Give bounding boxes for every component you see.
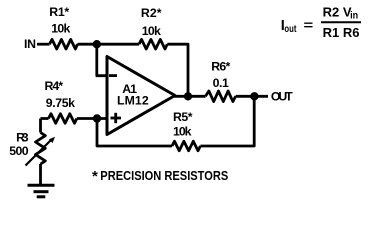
svg-text:10k: 10k bbox=[142, 24, 161, 38]
svg-text:OUT: OUT bbox=[271, 89, 293, 103]
svg-text:R1 R6: R1 R6 bbox=[323, 25, 360, 40]
svg-text:IN: IN bbox=[24, 37, 36, 51]
svg-text:10k: 10k bbox=[51, 21, 70, 35]
svg-text:R4*: R4* bbox=[45, 79, 64, 93]
svg-text:0.1: 0.1 bbox=[213, 76, 229, 90]
svg-text:R5*: R5* bbox=[173, 110, 193, 124]
svg-text:9.75k: 9.75k bbox=[46, 96, 75, 110]
svg-text:PRECISION RESISTORS: PRECISION RESISTORS bbox=[100, 168, 228, 183]
svg-text:=: = bbox=[304, 18, 314, 33]
svg-text:R6*: R6* bbox=[211, 59, 230, 73]
svg-text:*: * bbox=[92, 168, 98, 185]
svg-text:R2*: R2* bbox=[141, 6, 162, 20]
svg-text:in: in bbox=[350, 11, 358, 22]
svg-text:500: 500 bbox=[9, 144, 29, 158]
svg-text:R3: R3 bbox=[16, 130, 29, 144]
svg-text:R2 V: R2 V bbox=[323, 5, 352, 20]
svg-text:out: out bbox=[284, 23, 296, 35]
svg-text:LM12: LM12 bbox=[117, 94, 149, 108]
svg-text:10k: 10k bbox=[173, 125, 192, 139]
svg-text:R1*: R1* bbox=[49, 5, 69, 19]
